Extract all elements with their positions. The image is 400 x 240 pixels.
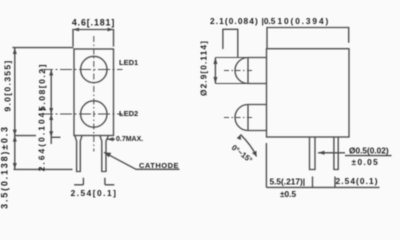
svg-text:|0.5: |0.5 <box>262 16 276 26</box>
dia 2.9 dim line <box>214 58 216 84</box>
side lead 1 <box>310 137 316 170</box>
side lead 2 <box>334 137 338 170</box>
svg-text:4.6[.181]: 4.6[.181] <box>72 17 115 27</box>
svg-text:0.7MAX.: 0.7MAX. <box>116 136 143 143</box>
bottom dim ticks 2.54 <box>74 178 83 185</box>
front lead 2 <box>100 136 108 172</box>
svg-text:5.5(.217)|: 5.5(.217)| <box>270 176 306 186</box>
vertical centerline <box>93 36 95 152</box>
front view body <box>74 49 114 136</box>
dome2 centerline <box>224 117 252 119</box>
LED2 circle <box>81 101 107 127</box>
extension line body top <box>12 47 73 49</box>
extension line lead end <box>14 168 73 170</box>
top dim arrows <box>73 28 114 32</box>
svg-text:2.1(0.084): 2.1(0.084) <box>210 16 259 26</box>
bottom dim line right view <box>266 186 379 188</box>
dome1 centerline <box>224 70 252 72</box>
0.7MAX leader arrow <box>107 138 115 140</box>
top dim bracket 10 <box>267 28 349 49</box>
svg-text:5.08[0.2]: 5.08[0.2] <box>37 63 47 111</box>
svg-text:Ø0.5(0.02): Ø0.5(0.02) <box>349 145 389 155</box>
svg-text:2.54(0.1): 2.54(0.1) <box>336 176 379 186</box>
svg-text:LED2: LED2 <box>119 109 138 118</box>
svg-text:LED1: LED1 <box>119 58 138 67</box>
dia 2.9 extension lines <box>215 57 248 59</box>
LED1 horizontal centerline <box>41 69 123 71</box>
side dome 2 <box>235 105 267 131</box>
left dim line 9.0/3.5 <box>14 48 16 170</box>
svg-text:3.5(0.138)±0.3: 3.5(0.138)±0.3 <box>0 125 10 209</box>
tick pin1 <box>312 177 314 188</box>
bottom dim extension from body face <box>265 143 267 187</box>
svg-text:±0.5: ±0.5 <box>280 189 296 199</box>
top dim bracket 2.1 <box>223 29 238 58</box>
dia 0.5 leader <box>318 152 345 154</box>
LED2 horizontal centerline <box>41 113 123 115</box>
side view body <box>267 49 350 137</box>
angle arc 0-15 <box>241 135 257 157</box>
svg-text:±0.05: ±0.05 <box>352 157 380 167</box>
inner left dim line 5.08/2.64 <box>50 70 52 145</box>
svg-text:2.64(0.104): 2.64(0.104) <box>37 106 47 172</box>
LED1 circle <box>81 56 107 82</box>
tick at body bottom <box>14 135 36 137</box>
CATHODE leader arrow <box>104 152 180 169</box>
dia 0.5 landing line <box>345 155 392 157</box>
svg-text:CATHODE: CATHODE <box>139 161 179 170</box>
svg-text:Ø2.9[0.114]: Ø2.9[0.114] <box>199 40 209 96</box>
svg-text:10(0.394): 10(0.394) <box>278 16 331 26</box>
dia 2.9 arrows <box>213 58 217 84</box>
tick pin2 <box>334 177 336 188</box>
front lead 1 <box>75 136 82 172</box>
side dome 1 <box>235 58 267 84</box>
svg-text:9.0[0.355]: 9.0[0.355] <box>2 59 12 111</box>
svg-text:2.54[0.1]: 2.54[0.1] <box>71 188 118 198</box>
top dimension bracket 4.6 <box>73 30 114 47</box>
tick at body bottom inner <box>51 136 60 138</box>
